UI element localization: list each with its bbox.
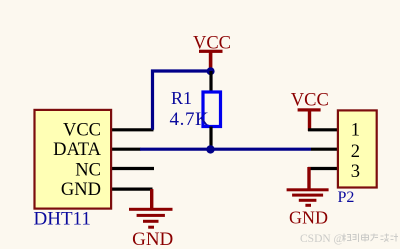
wire P2 pin1 to VCC bbox=[308, 128, 339, 131]
pin 4 stub GND (DHT11) bbox=[111, 188, 153, 191]
svg-text:GND: GND bbox=[289, 208, 328, 228]
svg-text:R1: R1 bbox=[171, 88, 192, 108]
svg-text:NC: NC bbox=[75, 160, 101, 180]
svg-text:GND: GND bbox=[132, 229, 173, 249]
svg-text:CSDN @: CSDN @ bbox=[300, 233, 344, 245]
power symbol VCC (right) bbox=[291, 90, 329, 131]
connector P2 box bbox=[338, 110, 377, 187]
junction dot node VCC/R1 bbox=[207, 67, 215, 75]
ground GND (left) bbox=[129, 189, 173, 249]
svg-text:VCC: VCC bbox=[291, 90, 329, 110]
power symbol VCC (top) bbox=[193, 33, 231, 68]
resistor R1 bbox=[203, 71, 221, 149]
junction dot node DATA/R1 bbox=[206, 145, 214, 153]
svg-text:VCC: VCC bbox=[63, 121, 101, 141]
pin 1 stub VCC (DHT11) bbox=[111, 128, 154, 131]
svg-text:1: 1 bbox=[351, 121, 360, 141]
wire P2 pin3 to GND bbox=[308, 167, 339, 170]
svg-text:DHT11: DHT11 bbox=[34, 209, 91, 230]
svg-text:P2: P2 bbox=[338, 189, 355, 206]
svg-text:3: 3 bbox=[351, 162, 360, 182]
svg-text:4.7K: 4.7K bbox=[170, 109, 210, 130]
ground GND (right) bbox=[287, 167, 329, 228]
wire P2 pin2 stub bbox=[311, 148, 339, 151]
pin 2 stub DATA (DHT11) bbox=[111, 148, 141, 151]
svg-text:2: 2 bbox=[351, 142, 360, 162]
svg-text:DATA: DATA bbox=[53, 140, 101, 160]
wire VCC net to DHT11 pin1 bbox=[153, 71, 211, 130]
svg-text:GND: GND bbox=[61, 180, 101, 200]
component DHT11 box bbox=[35, 110, 112, 209]
watermark CSDN @铭创电子设计 bbox=[300, 233, 398, 245]
pin 3 stub NC (DHT11) bbox=[111, 167, 154, 170]
wire DATA net (DHT11 pin2 to P2 pin2) bbox=[140, 148, 311, 151]
